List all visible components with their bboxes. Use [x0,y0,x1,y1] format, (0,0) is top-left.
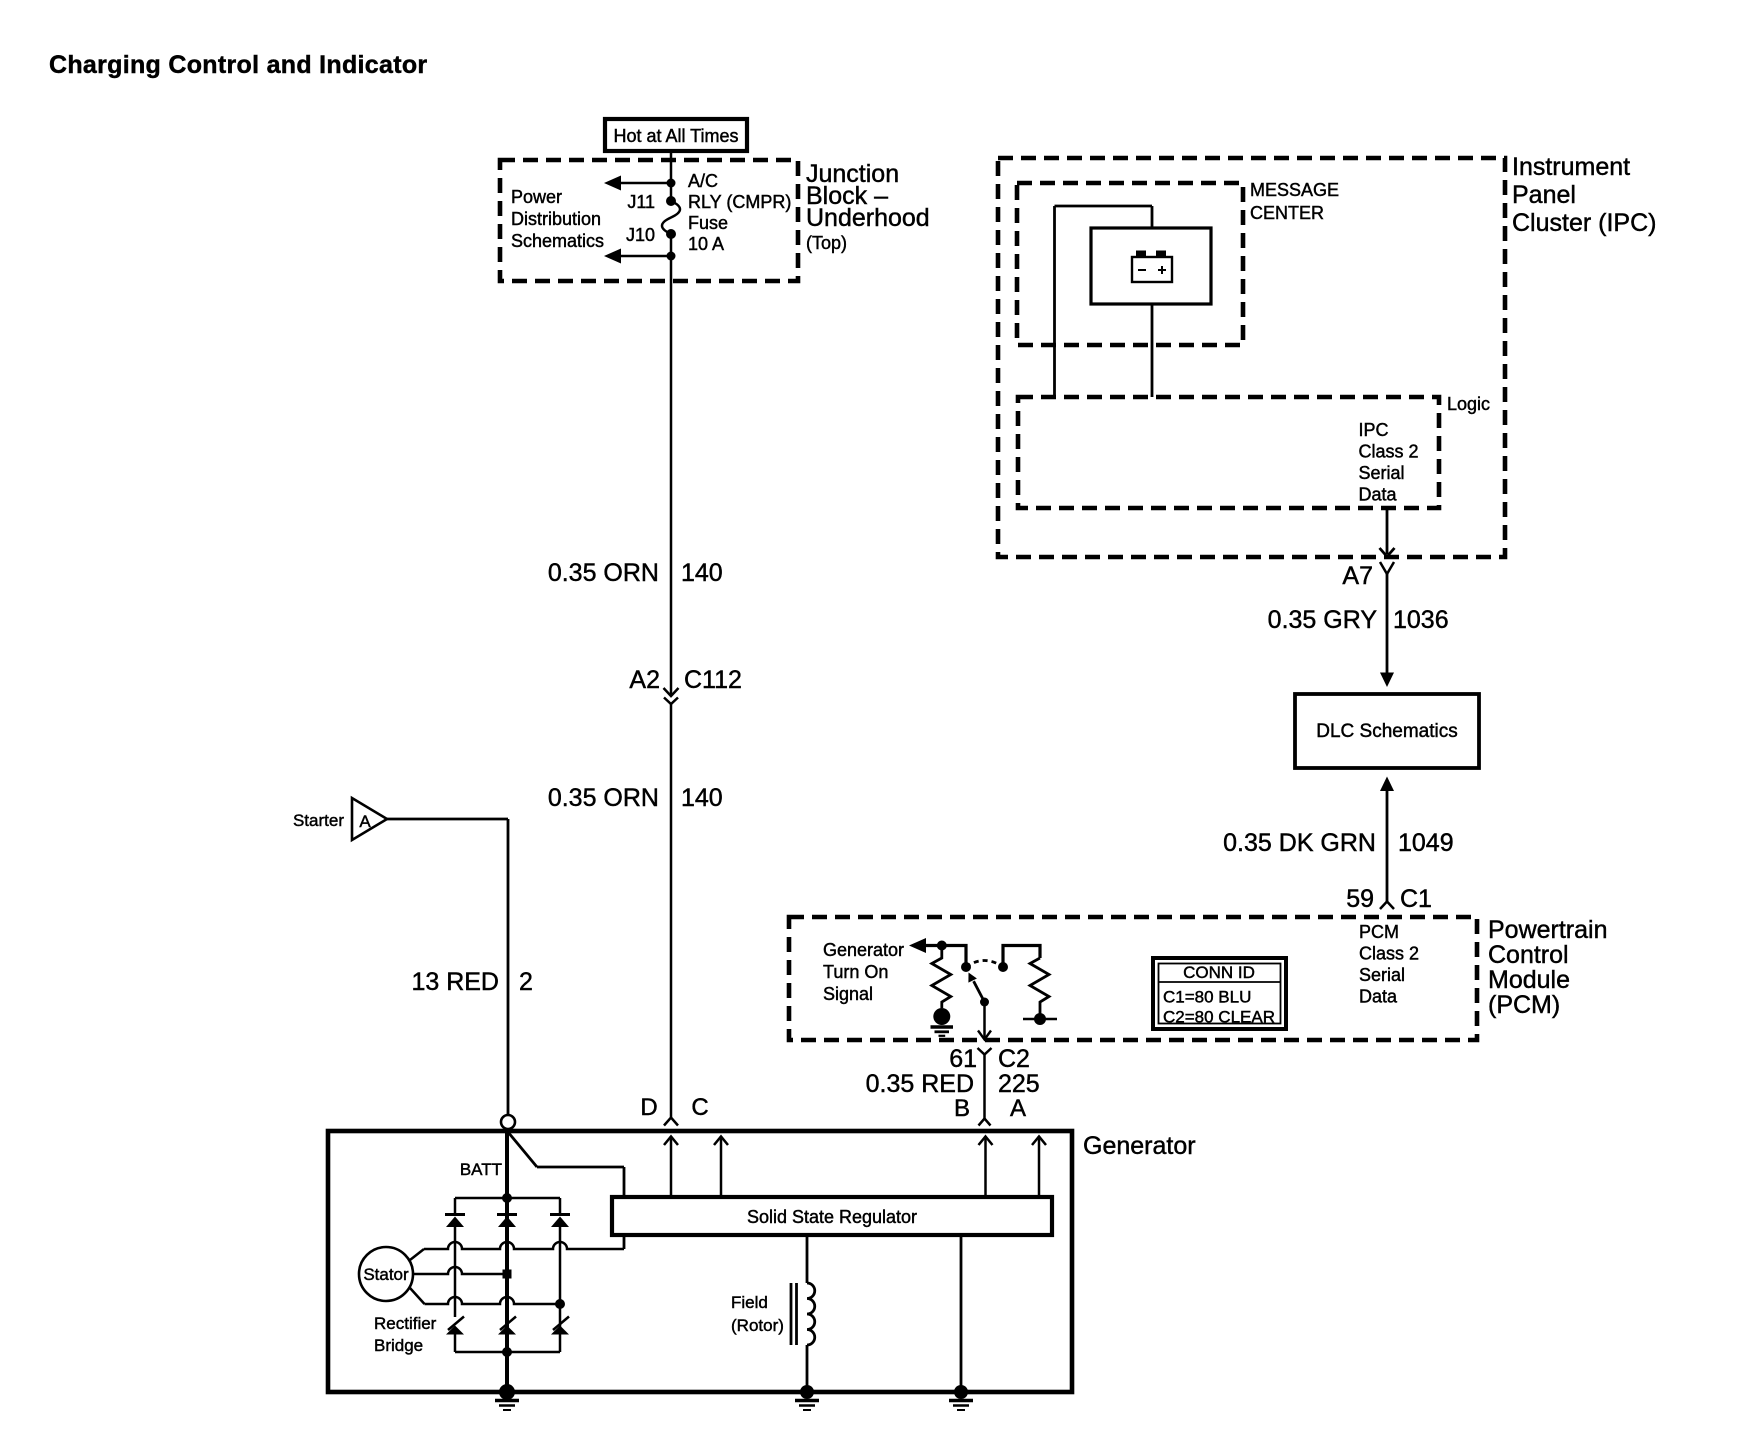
svg-text:Class 2: Class 2 [1359,442,1419,462]
svg-text:(Rotor): (Rotor) [731,1316,784,1335]
svg-text:A: A [359,812,371,831]
svg-text:Signal: Signal [823,984,873,1004]
svg-text:A: A [1010,1095,1026,1122]
svg-text:Rectifier: Rectifier [374,1314,437,1333]
svg-text:Control: Control [1488,941,1569,969]
svg-text:Field: Field [731,1293,768,1312]
svg-text:Instrument: Instrument [1512,153,1630,181]
svg-text:(Top): (Top) [806,233,847,253]
svg-text:Logic: Logic [1447,394,1490,414]
svg-text:Schematics: Schematics [511,231,604,251]
svg-text:Serial: Serial [1359,965,1405,985]
svg-text:13 RED: 13 RED [411,968,499,996]
svg-text:CENTER: CENTER [1250,203,1324,223]
svg-text:C: C [691,1094,708,1121]
svg-text:Power: Power [511,187,562,207]
svg-text:0.35 ORN: 0.35 ORN [548,559,659,587]
svg-text:J11: J11 [627,192,655,212]
svg-text:BATT: BATT [460,1160,502,1179]
svg-text:140: 140 [681,559,723,587]
svg-text:C112: C112 [684,666,742,694]
svg-text:Panel: Panel [1512,181,1576,209]
svg-text:1036: 1036 [1393,606,1449,634]
svg-text:MESSAGE: MESSAGE [1250,180,1339,200]
svg-text:RLY (CMPR): RLY (CMPR) [688,192,791,212]
svg-text:Solid State Regulator: Solid State Regulator [747,1207,917,1227]
svg-text:Data: Data [1359,987,1398,1007]
svg-text:C1=80 BLU: C1=80 BLU [1163,988,1251,1007]
svg-text:Serial: Serial [1359,463,1405,483]
svg-text:J10: J10 [626,225,655,245]
svg-text:2: 2 [519,968,533,996]
svg-text:Cluster (IPC): Cluster (IPC) [1512,209,1656,237]
svg-text:D: D [640,1094,657,1121]
svg-text:C2: C2 [998,1045,1030,1073]
svg-text:61: 61 [949,1045,977,1073]
svg-text:Bridge: Bridge [374,1336,423,1355]
svg-text:1049: 1049 [1398,829,1454,857]
svg-text:Module: Module [1488,966,1570,994]
svg-text:A/C: A/C [688,171,718,191]
svg-text:Starter: Starter [293,811,344,830]
svg-text:Data: Data [1359,485,1398,505]
svg-text:0.35 ORN: 0.35 ORN [548,784,659,812]
svg-text:59: 59 [1346,885,1374,913]
svg-text:Charging Control and Indicator: Charging Control and Indicator [49,51,427,79]
svg-text:B: B [954,1095,970,1122]
svg-text:Fuse: Fuse [688,213,728,233]
svg-text:0.35 GRY: 0.35 GRY [1268,606,1378,634]
svg-text:IPC: IPC [1359,420,1389,440]
svg-text:DLC Schematics: DLC Schematics [1316,721,1458,742]
svg-text:Hot at All Times: Hot at All Times [613,126,738,146]
svg-text:Stator: Stator [363,1265,409,1284]
svg-text:PCM: PCM [1359,922,1399,942]
svg-text:140: 140 [681,784,723,812]
svg-text:Turn On: Turn On [823,962,888,982]
svg-text:A7: A7 [1342,562,1373,590]
svg-text:225: 225 [998,1070,1040,1098]
svg-text:Powertrain: Powertrain [1488,916,1608,944]
svg-text:Distribution: Distribution [511,209,601,229]
svg-text:0.35 DK GRN: 0.35 DK GRN [1223,829,1376,857]
svg-text:Generator: Generator [1083,1132,1196,1160]
svg-text:(PCM): (PCM) [1488,991,1560,1019]
svg-text:Underhood: Underhood [806,204,930,232]
svg-text:A2: A2 [629,666,660,694]
svg-text:Class 2: Class 2 [1359,944,1419,964]
svg-text:0.35 RED: 0.35 RED [866,1070,974,1098]
svg-text:C2=80 CLEAR: C2=80 CLEAR [1163,1008,1275,1027]
svg-text:Generator: Generator [823,940,904,960]
svg-text:C1: C1 [1400,885,1432,913]
svg-text:10 A: 10 A [688,234,724,254]
svg-text:CONN ID: CONN ID [1183,963,1255,982]
